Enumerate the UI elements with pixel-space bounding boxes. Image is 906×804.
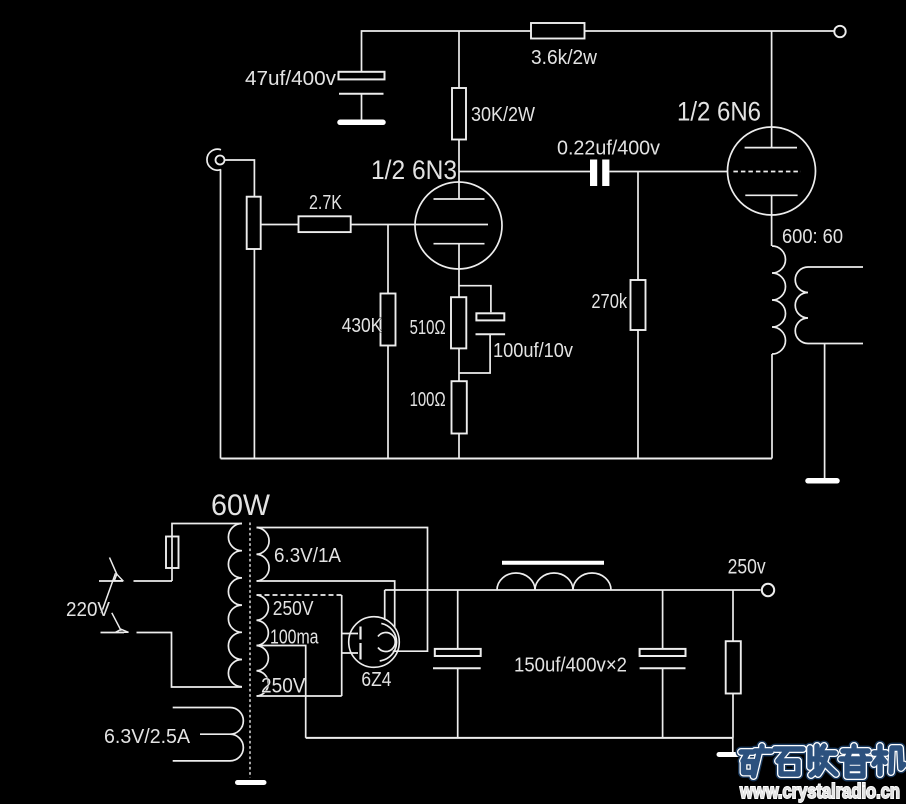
ground bar secondary — [808, 478, 837, 484]
op 6N3 triode envelope — [415, 182, 502, 269]
wire bleeder top — [732, 590, 734, 641]
transformer 6.3V/2.5A winding — [230, 708, 243, 761]
wire upper contact stub — [99, 580, 123, 582]
svg-text:3.6k/2w: 3.6k/2w — [531, 47, 598, 69]
choke filter core bar — [502, 561, 604, 565]
fuse — [166, 537, 179, 569]
wire 6.3V/1A top lead to 6Z4 filament right — [257, 528, 428, 652]
resistor bleeder — [726, 641, 741, 693]
svg-text:6Z4: 6Z4 — [361, 669, 391, 691]
wire 100 ohm to ground rail — [458, 434, 460, 459]
potentiometer volume — [247, 197, 261, 249]
wire 6N6 cathode to output transformer — [771, 195, 773, 246]
wire B+ top rail left segment — [362, 31, 532, 72]
wire B+ top rail right segment — [585, 30, 835, 32]
wire 6.3V/1A bottom lead to 6Z4 filament top — [257, 581, 395, 627]
wire cap1 top — [457, 590, 459, 649]
6Z4 filament inner circle — [378, 633, 395, 652]
wire primary bottom to ground rail — [771, 354, 773, 459]
capacitor 150uf no.2 bottom plate — [640, 667, 686, 669]
wire secondary top lead — [808, 266, 863, 268]
resistor 270k — [631, 280, 646, 330]
resistor 30K/2W — [452, 88, 466, 140]
capacitor 150uf no.1 bottom plate — [433, 667, 481, 669]
wire secondary bottom lead — [808, 343, 863, 345]
watermark blue stroke layer — [741, 746, 904, 776]
transformer power primary winding — [228, 524, 242, 687]
svg-text:1/2 6N6: 1/2 6N6 — [677, 97, 761, 127]
wire 6Z4 plate stub upper — [342, 633, 358, 635]
wire cathode node to 100uf — [459, 286, 491, 313]
transformer output 600:60 primary — [772, 246, 786, 354]
watermark halo layer — [741, 746, 904, 776]
ground bar under core — [238, 780, 265, 785]
wire coupling node to 270k — [637, 172, 639, 281]
6Z4 plate bar upper — [359, 627, 361, 640]
svg-text:30K/2W: 30K/2W — [471, 104, 535, 126]
resistor 510 ohm — [451, 297, 466, 348]
svg-text:220V: 220V — [66, 599, 111, 621]
transformer HV winding 250V-0-250V — [257, 595, 269, 696]
terminal B+ output (top right) — [834, 26, 845, 37]
wire cap2 top — [662, 590, 664, 649]
capacitor 150uf no.2 top plate — [640, 649, 686, 656]
wire 47uf to ground — [361, 94, 363, 120]
switch arrowhead lower — [116, 629, 129, 632]
wire cap1 bottom — [457, 668, 459, 738]
wire PSU ground rail — [306, 737, 733, 739]
wire 270k to ground rail — [637, 330, 639, 459]
resistor 3.6k/2w — [531, 23, 585, 39]
svg-text:0.22uf/400v: 0.22uf/400v — [557, 138, 660, 160]
watermark white outline layer — [741, 746, 904, 776]
6Z4 plate bar lower — [359, 643, 361, 660]
wire rail to 6N6 plate — [771, 31, 773, 148]
switch arrowhead upper — [114, 574, 123, 581]
capacitor 47uf/400v top plate — [339, 72, 385, 80]
choke filter winding — [497, 573, 611, 590]
svg-text:150uf/400v×2: 150uf/400v×2 — [514, 655, 627, 677]
svg-text:6.3V/2.5A: 6.3V/2.5A — [104, 726, 191, 748]
svg-text:1/2 6N3: 1/2 6N3 — [371, 155, 457, 185]
wire secondary to ground — [824, 344, 826, 479]
ground bar under 47uf — [340, 120, 383, 126]
wire 2.7K to grid of 6N3 — [351, 224, 488, 226]
6N6 cathode — [745, 194, 797, 196]
wire jack pin to pot — [225, 160, 255, 197]
svg-text:100uf/10v: 100uf/10v — [493, 340, 573, 362]
svg-text:6.3V/1A: 6.3V/1A — [274, 545, 342, 567]
wire B+ filter rail — [385, 589, 761, 591]
wire cap2 bottom — [662, 668, 664, 738]
wire coupling node to cap 0.22uf — [459, 171, 590, 173]
wire lower contact stub — [101, 632, 125, 634]
wire cap to 6N6 grid — [610, 171, 728, 173]
wire main ground rail — [221, 458, 773, 460]
wire lower contact to primary bottom — [137, 633, 243, 688]
svg-text:47uf/400v: 47uf/400v — [245, 68, 336, 90]
jack input center pin — [216, 156, 225, 165]
switch blade long — [101, 573, 115, 613]
wire bleeder bottom — [732, 694, 734, 738]
capacitor 0.22uf/400v plates — [590, 160, 597, 187]
wire 30K to 6N3 plate — [458, 140, 460, 200]
wire rail to 30K resistor — [458, 31, 460, 88]
resistor 2.7K — [299, 216, 351, 232]
wire 430K to ground rail — [387, 346, 389, 459]
wire pot wiper — [261, 224, 299, 226]
wire 6N3 cathode lead — [458, 244, 460, 297]
wire HV top tap dashed — [257, 594, 342, 596]
wire upper switch contact — [134, 580, 173, 582]
svg-text:510Ω: 510Ω — [410, 317, 446, 339]
op 6N6 triode envelope — [728, 127, 816, 215]
transformer power core dashed — [249, 523, 251, 778]
wire 6.3V/2.5A middle stub — [200, 733, 230, 735]
6N6 plate — [745, 147, 797, 149]
6Z4 filament horseshoe — [380, 623, 397, 661]
resistor 430K — [381, 294, 396, 346]
6N3 cathode — [434, 243, 485, 245]
wire 100uf bottom back to resistor chain — [459, 334, 491, 373]
wire 6Z4 plate stub lower — [342, 652, 358, 654]
wire primary top lead — [172, 524, 242, 582]
6N6 grid dashed — [733, 171, 801, 173]
svg-text:www.crystalradio.cn: www.crystalradio.cn — [739, 780, 900, 803]
switch blade upper — [110, 558, 117, 575]
wire grid node to 430K — [387, 225, 389, 294]
wire 6Z4 plate feed vertical — [341, 595, 343, 696]
transformer output secondary — [795, 267, 808, 344]
svg-text:60W: 60W — [211, 489, 271, 522]
terminal 250v output — [762, 584, 774, 596]
svg-text:250v: 250v — [728, 556, 766, 579]
jack input outer shell — [207, 149, 221, 170]
ground bar PSU — [719, 752, 746, 757]
svg-text:250V: 250V — [261, 675, 306, 698]
transformer 6.3V/1A winding — [257, 528, 270, 582]
wire pot bottom to ground rail — [253, 249, 255, 459]
svg-text:2.7K: 2.7K — [309, 192, 343, 214]
resistor 100 ohm — [452, 381, 467, 433]
wire jack shell to ground rail — [220, 169, 222, 458]
capacitor 100uf/10v bottom plate — [476, 333, 506, 335]
op 6Z4 rectifier envelope — [349, 617, 400, 668]
capacitor 100uf/10v top plate — [476, 313, 504, 320]
wire 6.3V/2.5A top lead — [173, 707, 230, 709]
svg-text:430K: 430K — [342, 315, 383, 337]
switch blade lower — [112, 613, 121, 631]
capacitor 47uf/400v bottom plate — [339, 93, 384, 95]
wire to PSU ground — [732, 738, 734, 753]
wire 510 to 100 — [458, 348, 460, 381]
svg-text:250V: 250V — [273, 598, 314, 620]
wire HV center tap — [257, 646, 306, 738]
capacitor 150uf no.1 top plate — [435, 649, 481, 656]
wire 6.3V/2.5A bottom lead — [173, 760, 230, 762]
svg-text:270k: 270k — [591, 291, 628, 313]
wire HV bottom tap — [257, 695, 342, 697]
wire B+ from rectifier — [384, 590, 386, 620]
svg-text:600: 60: 600: 60 — [782, 226, 843, 248]
6N3 plate — [434, 198, 485, 200]
svg-text:100Ω: 100Ω — [410, 389, 446, 411]
